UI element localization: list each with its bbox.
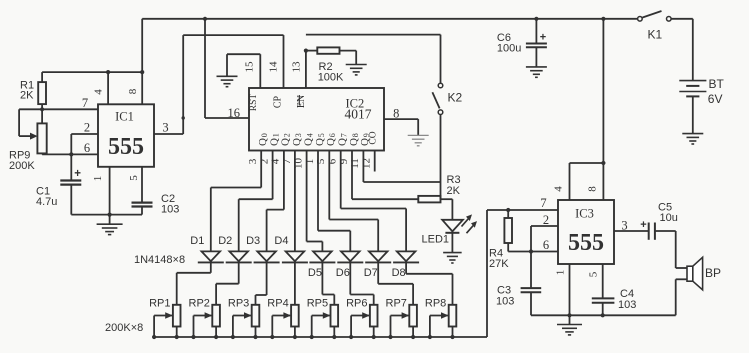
svg-text:15: 15 [244, 61, 256, 73]
svg-text:14: 14 [268, 61, 280, 73]
svg-text:RP6: RP6 [346, 298, 367, 310]
svg-text:RP5: RP5 [307, 298, 328, 310]
svg-text:Q: Q [268, 138, 280, 146]
svg-text:8: 8 [127, 88, 139, 94]
svg-text:5: 5 [315, 158, 327, 164]
svg-text:D5: D5 [308, 267, 322, 279]
svg-text:7: 7 [82, 96, 88, 110]
svg-text:4.7u: 4.7u [36, 196, 57, 208]
svg-text:BT: BT [709, 77, 725, 91]
svg-text:K1: K1 [648, 28, 663, 42]
svg-text:100u: 100u [497, 43, 521, 55]
svg-text:4017: 4017 [345, 107, 372, 122]
svg-text:8: 8 [351, 133, 360, 137]
svg-text:103: 103 [496, 295, 514, 307]
svg-text:6: 6 [327, 158, 339, 164]
svg-text:Q: Q [280, 138, 292, 146]
svg-text:6: 6 [84, 141, 90, 155]
svg-text:D1: D1 [190, 235, 204, 247]
svg-text:CP: CP [273, 95, 284, 108]
svg-text:RST: RST [249, 94, 259, 112]
svg-text:6: 6 [543, 238, 549, 252]
svg-text:D7: D7 [364, 267, 378, 279]
svg-text:Q: Q [302, 138, 314, 146]
svg-text:555: 555 [568, 230, 604, 256]
svg-text:RP2: RP2 [189, 298, 210, 310]
svg-text:103: 103 [161, 204, 179, 216]
svg-text:7: 7 [281, 158, 293, 164]
svg-text:RP3: RP3 [228, 298, 249, 310]
svg-text:4: 4 [305, 133, 314, 137]
svg-text:3: 3 [162, 121, 168, 135]
svg-text:3: 3 [294, 133, 303, 137]
svg-text:RP4: RP4 [267, 298, 288, 310]
svg-text:1: 1 [304, 159, 316, 165]
svg-text:1N4148×8: 1N4148×8 [134, 254, 185, 266]
svg-text:RP1: RP1 [149, 298, 170, 310]
svg-text:Q: Q [257, 138, 269, 146]
svg-text:BP: BP [705, 266, 721, 280]
svg-text:103: 103 [618, 299, 636, 311]
svg-text:Q: Q [348, 138, 360, 146]
svg-text:CO: CO [369, 131, 379, 144]
svg-text:1: 1 [555, 270, 567, 276]
svg-text:Q: Q [325, 138, 337, 146]
svg-text:200K×8: 200K×8 [105, 322, 143, 334]
svg-text:100K: 100K [318, 72, 344, 84]
svg-text:2: 2 [283, 133, 292, 137]
svg-text:D3: D3 [246, 235, 260, 247]
svg-text:2K: 2K [447, 185, 461, 197]
svg-text:1: 1 [271, 133, 280, 137]
svg-text:0: 0 [260, 133, 269, 137]
svg-text:200K: 200K [9, 160, 35, 172]
svg-text:Q: Q [337, 138, 349, 146]
svg-text:2: 2 [258, 159, 270, 165]
svg-text:6V: 6V [708, 92, 723, 106]
svg-text:27K: 27K [489, 258, 509, 270]
svg-text:8: 8 [586, 186, 598, 192]
svg-text:7: 7 [540, 196, 546, 210]
svg-text:Q: Q [291, 138, 303, 146]
svg-text:5: 5 [588, 271, 600, 277]
svg-text:D2: D2 [218, 235, 232, 247]
svg-text:D8: D8 [392, 267, 406, 279]
svg-text:11: 11 [349, 158, 361, 169]
svg-text:RP8: RP8 [425, 298, 446, 310]
svg-text:4: 4 [93, 89, 105, 95]
svg-text:+: + [74, 168, 81, 180]
svg-text:12: 12 [361, 158, 373, 169]
svg-text:IC3: IC3 [575, 206, 594, 220]
svg-text:D4: D4 [274, 235, 288, 247]
svg-text:2K: 2K [20, 90, 34, 102]
svg-text:8: 8 [393, 107, 399, 121]
svg-text:LED1: LED1 [422, 234, 450, 246]
svg-text:4: 4 [553, 186, 565, 192]
svg-text:3: 3 [621, 219, 627, 233]
svg-text:K2: K2 [448, 90, 463, 104]
svg-text:D6: D6 [336, 267, 350, 279]
svg-text:16: 16 [228, 106, 241, 120]
svg-text:2: 2 [543, 213, 549, 227]
svg-text:+: + [640, 219, 646, 231]
svg-text:1: 1 [92, 176, 104, 182]
svg-text:EN: EN [296, 95, 307, 108]
svg-text:2: 2 [84, 121, 90, 135]
svg-text:RP7: RP7 [386, 298, 407, 310]
svg-text:555: 555 [108, 134, 144, 160]
svg-text:7: 7 [340, 133, 349, 137]
svg-text:10u: 10u [660, 212, 678, 224]
svg-text:Q: Q [314, 138, 326, 146]
svg-text:9: 9 [338, 158, 350, 164]
svg-text:3: 3 [247, 158, 259, 164]
svg-text:13: 13 [291, 61, 303, 73]
svg-text:4: 4 [270, 158, 282, 164]
svg-text:5: 5 [128, 175, 140, 181]
svg-text:IC1: IC1 [115, 110, 134, 124]
svg-text:+: + [540, 32, 546, 44]
svg-text:6: 6 [328, 133, 337, 137]
svg-text:5: 5 [317, 133, 326, 137]
